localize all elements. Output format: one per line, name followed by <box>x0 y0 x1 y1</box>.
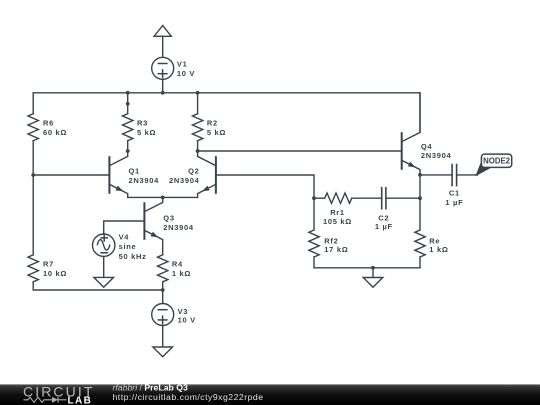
logo doodle <box>24 397 67 403</box>
svg-text:Q2: Q2 <box>188 167 199 176</box>
label C1 <box>445 189 463 207</box>
svg-text:2N3904: 2N3904 <box>129 176 160 185</box>
label R3 <box>137 119 156 138</box>
svg-text:Rr1: Rr1 <box>330 208 345 217</box>
svg-text:V1: V1 <box>177 60 188 69</box>
node R3 bottom <box>126 149 130 153</box>
resistor Re <box>415 230 425 268</box>
svg-text:Re: Re <box>429 236 440 245</box>
transistor Q2 <box>198 151 216 197</box>
svg-text:1 µF: 1 µF <box>445 198 463 207</box>
svg-text:V4: V4 <box>119 233 130 242</box>
svg-text:LAB: LAB <box>68 396 93 405</box>
svg-text:R7: R7 <box>43 259 54 268</box>
svg-text:10 V: 10 V <box>177 69 195 78</box>
node feedback left <box>312 196 316 200</box>
node left/Q1 base <box>31 173 35 177</box>
label R6 <box>43 119 67 138</box>
capacitor C2 <box>382 188 420 209</box>
svg-text:1 µF: 1 µF <box>375 222 393 231</box>
svg-text:NODE2: NODE2 <box>483 157 511 166</box>
svg-text:5 kΩ: 5 kΩ <box>137 128 156 137</box>
svg-text:http://circuitlab.com/cty9xg22: http://circuitlab.com/cty9xg222rpde <box>113 392 264 402</box>
svg-text:rfabbri / PreLab Q3: rfabbri / PreLab Q3 <box>113 383 188 393</box>
resistor Rf2 <box>309 198 319 268</box>
node rail/V1 <box>161 91 165 95</box>
wire Q3 base to V4 <box>104 221 145 234</box>
svg-text:2N3904: 2N3904 <box>163 223 194 232</box>
svg-text:R6: R6 <box>43 119 54 128</box>
node rail/R3 <box>126 91 130 95</box>
resistor R6 <box>28 114 38 141</box>
voltage source V3 <box>152 290 174 347</box>
svg-text:R4: R4 <box>172 259 183 268</box>
resistor R4 <box>158 255 168 290</box>
voltage source V1 <box>152 57 174 93</box>
resistor R3 <box>123 114 133 151</box>
label Re <box>429 236 448 254</box>
label Rf2 <box>324 236 348 254</box>
node R3 upper <box>126 102 130 106</box>
svg-text:5 kΩ: 5 kΩ <box>207 128 226 137</box>
ground under V4 <box>94 277 114 287</box>
wire left rail <box>32 93 34 114</box>
svg-text:Q4: Q4 <box>421 142 433 151</box>
label C2 <box>375 213 393 231</box>
node emitters <box>161 196 165 200</box>
node R2 bottom <box>196 149 200 153</box>
label R2 <box>207 119 226 138</box>
svg-text:Q3: Q3 <box>163 214 174 223</box>
svg-text:10 kΩ: 10 kΩ <box>43 269 67 278</box>
label Q2 <box>169 167 200 185</box>
node bottom mid <box>371 266 375 270</box>
wire Q1 base <box>33 174 109 176</box>
svg-text:50 kHz: 50 kHz <box>119 252 147 261</box>
svg-text:sine: sine <box>119 242 137 251</box>
label Q1 <box>129 167 160 185</box>
svg-text:2N3904: 2N3904 <box>169 176 200 185</box>
svg-text:Rf2: Rf2 <box>324 236 338 245</box>
node bottom left <box>161 288 165 292</box>
transistor Q1 <box>109 151 127 197</box>
logo CIRCUIT <box>23 383 264 405</box>
wire emitters <box>128 196 198 198</box>
capacitor C1 <box>452 165 477 186</box>
wire R2 to Q4 base <box>198 150 402 152</box>
svg-text:C1: C1 <box>449 189 460 198</box>
svg-text:2N3904: 2N3904 <box>421 151 452 160</box>
power symbol VCC <box>154 26 171 58</box>
voltage source V4 <box>93 234 115 277</box>
resistor Rr1 <box>314 193 382 203</box>
svg-text:1 kΩ: 1 kΩ <box>172 269 191 278</box>
wire Q2 base to feedback <box>216 175 314 198</box>
wire feedback bottom <box>314 267 420 269</box>
wire top rail <box>33 93 420 133</box>
svg-text:R2: R2 <box>207 119 218 128</box>
svg-text:60 kΩ: 60 kΩ <box>43 128 67 137</box>
transistor Q4 <box>402 93 420 175</box>
label Rr1 <box>323 208 352 226</box>
label V1 <box>177 60 195 78</box>
label R7 <box>43 259 67 278</box>
node Q4 emitter <box>418 173 422 177</box>
wire R3 branch <box>127 93 129 114</box>
ground bottom mid <box>363 268 383 288</box>
label Q4 <box>421 142 452 160</box>
ground under V3 <box>153 347 173 357</box>
node feedback right <box>418 196 422 200</box>
svg-text:1 kΩ: 1 kΩ <box>429 245 448 254</box>
svg-text:Q1: Q1 <box>129 167 140 176</box>
label Q3 <box>163 214 194 232</box>
label V4 <box>119 233 147 261</box>
label V3 <box>178 307 196 325</box>
wire R2 branch <box>197 93 199 114</box>
resistor R2 <box>192 114 202 151</box>
wire left rail bottom <box>33 282 163 290</box>
node rail/R2 <box>196 91 200 95</box>
svg-text:17 kΩ: 17 kΩ <box>324 245 348 254</box>
node flag NODE2 <box>475 154 511 176</box>
svg-text:C2: C2 <box>378 213 389 222</box>
wire left rail mid <box>32 141 34 255</box>
wire Q4 emitter down <box>419 175 421 230</box>
svg-text:R3: R3 <box>137 119 148 128</box>
wire output <box>420 174 452 176</box>
label R4 <box>172 259 191 278</box>
svg-text:10 V: 10 V <box>178 316 196 325</box>
footer bar <box>0 384 540 405</box>
svg-text:105 kΩ: 105 kΩ <box>323 217 352 226</box>
resistor R7 <box>28 255 38 282</box>
transistor Q3 <box>144 197 162 254</box>
